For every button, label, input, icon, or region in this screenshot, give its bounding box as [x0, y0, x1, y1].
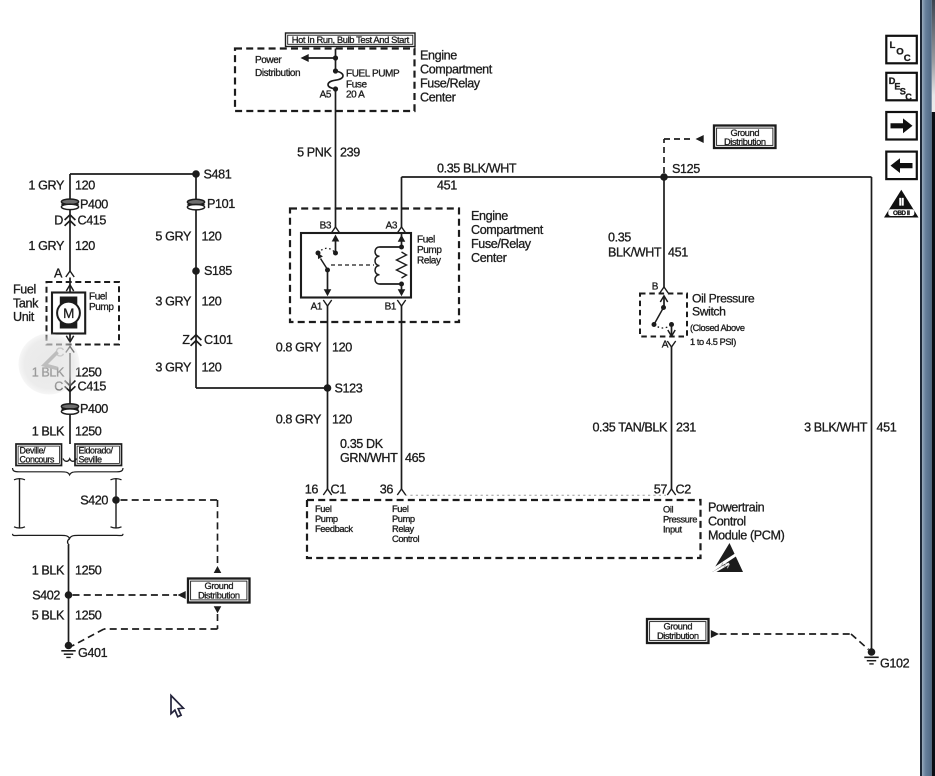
- svg-text:C1: C1: [331, 483, 347, 497]
- svg-text:Pump: Pump: [315, 514, 338, 524]
- svg-text:C415: C415: [78, 214, 107, 228]
- svg-text:Distribution: Distribution: [724, 137, 766, 147]
- svg-text:G401: G401: [78, 646, 108, 660]
- svg-text:1 GRY: 1 GRY: [28, 239, 65, 253]
- svg-text:465: 465: [405, 451, 425, 465]
- svg-text:FUEL PUMP: FUEL PUMP: [346, 69, 400, 80]
- svg-text:Unit: Unit: [13, 310, 35, 324]
- svg-text:Seville: Seville: [79, 455, 103, 465]
- svg-text:Input: Input: [663, 524, 682, 534]
- svg-text:Oil: Oil: [663, 504, 673, 514]
- svg-text:Pressure: Pressure: [663, 514, 697, 524]
- svg-text:C415: C415: [78, 380, 107, 394]
- svg-text:OBD II: OBD II: [893, 210, 910, 217]
- svg-text:120: 120: [75, 179, 95, 193]
- svg-text:Center: Center: [471, 251, 507, 265]
- svg-text:G102: G102: [880, 657, 910, 671]
- svg-text:231: 231: [676, 421, 696, 435]
- svg-text:Concours: Concours: [20, 455, 55, 465]
- svg-text:57: 57: [654, 483, 668, 497]
- svg-text:1250: 1250: [75, 425, 102, 439]
- svg-text:A3: A3: [386, 221, 398, 232]
- svg-text:3 BLK/WHT: 3 BLK/WHT: [804, 421, 868, 435]
- svg-text:1250: 1250: [75, 564, 102, 578]
- svg-text:0.35 DK: 0.35 DK: [340, 437, 384, 451]
- svg-text:451: 451: [437, 179, 457, 193]
- svg-text:20 A: 20 A: [346, 90, 365, 101]
- svg-text:0.35 BLK/WHT: 0.35 BLK/WHT: [437, 162, 517, 176]
- svg-text:5 GRY: 5 GRY: [155, 230, 192, 244]
- svg-text:0.35: 0.35: [608, 231, 631, 245]
- svg-text:Pump: Pump: [392, 514, 415, 524]
- svg-text:Fuse/Relay: Fuse/Relay: [420, 77, 481, 91]
- svg-text:5 BLK: 5 BLK: [32, 609, 65, 623]
- svg-text:Powertrain: Powertrain: [708, 501, 765, 515]
- svg-text:0.8 GRY: 0.8 GRY: [276, 341, 322, 355]
- svg-text:C: C: [905, 92, 912, 102]
- svg-text:Control: Control: [708, 515, 746, 529]
- svg-text:0.35 TAN/BLK: 0.35 TAN/BLK: [592, 421, 668, 435]
- svg-text:36: 36: [380, 483, 394, 497]
- svg-text:Fuse/Relay: Fuse/Relay: [471, 237, 532, 251]
- svg-text:Power: Power: [255, 55, 282, 66]
- svg-text:B: B: [652, 282, 659, 293]
- svg-text:1 GRY: 1 GRY: [28, 179, 65, 193]
- svg-text:451: 451: [668, 246, 688, 260]
- svg-text:Relay: Relay: [417, 255, 441, 266]
- svg-text:C: C: [904, 53, 911, 64]
- svg-text:Switch: Switch: [692, 305, 726, 319]
- svg-text:Distribution: Distribution: [255, 68, 300, 79]
- svg-text:120: 120: [202, 230, 222, 244]
- svg-text:1 to 4.5 PSI): 1 to 4.5 PSI): [690, 337, 736, 347]
- svg-text:B1: B1: [385, 302, 397, 313]
- svg-text:C101: C101: [204, 333, 233, 347]
- svg-text:Pump: Pump: [417, 245, 442, 256]
- svg-text:Fuel: Fuel: [315, 504, 332, 514]
- svg-text:239: 239: [340, 146, 360, 160]
- svg-text:GRN/WHT: GRN/WHT: [340, 451, 398, 465]
- svg-text:3 GRY: 3 GRY: [155, 361, 192, 375]
- svg-text:II: II: [899, 196, 905, 208]
- svg-text:Ground: Ground: [663, 622, 692, 632]
- svg-text:BLK/WHT: BLK/WHT: [608, 246, 662, 260]
- svg-text:L: L: [890, 40, 896, 51]
- svg-text:P400: P400: [80, 402, 108, 416]
- svg-text:120: 120: [202, 295, 222, 309]
- svg-text:Pump: Pump: [89, 302, 114, 313]
- svg-text:Oil Pressure: Oil Pressure: [692, 292, 755, 306]
- svg-text:Fuel: Fuel: [417, 235, 435, 246]
- svg-text:1250: 1250: [75, 609, 102, 623]
- svg-text:1 BLK: 1 BLK: [32, 564, 65, 578]
- svg-text:P400: P400: [80, 198, 108, 212]
- svg-text:S481: S481: [204, 168, 232, 182]
- svg-text:S402: S402: [32, 589, 60, 603]
- svg-text:P101: P101: [207, 197, 235, 211]
- svg-text:C2: C2: [676, 483, 692, 497]
- svg-text:Control: Control: [392, 534, 420, 544]
- svg-text:Relay: Relay: [392, 524, 415, 534]
- svg-text:451: 451: [877, 421, 897, 435]
- svg-text:120: 120: [75, 239, 95, 253]
- svg-text:Feedback: Feedback: [315, 524, 353, 534]
- svg-text:120: 120: [332, 413, 352, 427]
- svg-text:S420: S420: [80, 494, 108, 508]
- svg-text:Z: Z: [182, 333, 190, 347]
- svg-text:Module (PCM): Module (PCM): [708, 529, 785, 543]
- svg-text:120: 120: [202, 361, 222, 375]
- svg-text:S125: S125: [672, 162, 700, 176]
- svg-text:Center: Center: [420, 90, 456, 104]
- svg-text:Engine: Engine: [471, 209, 508, 223]
- svg-text:Ground: Ground: [204, 581, 233, 591]
- svg-text:0.8 GRY: 0.8 GRY: [276, 413, 322, 427]
- svg-text:Fuel: Fuel: [13, 283, 36, 297]
- svg-text:S185: S185: [204, 264, 232, 278]
- svg-text:B3: B3: [320, 221, 332, 232]
- svg-text:5 PNK: 5 PNK: [297, 146, 332, 160]
- svg-text:120: 120: [332, 341, 352, 355]
- svg-text:Hot In Run, Bulb Test And Star: Hot In Run, Bulb Test And Start: [292, 34, 410, 45]
- svg-text:(Closed Above: (Closed Above: [690, 323, 745, 333]
- svg-text:16: 16: [305, 483, 319, 497]
- svg-text:A: A: [54, 267, 63, 281]
- svg-text:3 GRY: 3 GRY: [155, 295, 192, 309]
- svg-text:A1: A1: [311, 302, 323, 313]
- svg-text:Fuel: Fuel: [392, 504, 409, 514]
- svg-text:S123: S123: [335, 382, 363, 396]
- svg-text:Distribution: Distribution: [198, 591, 240, 601]
- svg-text:A5: A5: [320, 90, 332, 101]
- svg-text:Engine: Engine: [420, 49, 457, 63]
- svg-text:Tank: Tank: [13, 296, 39, 310]
- svg-text:Distribution: Distribution: [657, 631, 699, 641]
- svg-text:D: D: [54, 214, 63, 228]
- svg-text:M: M: [63, 306, 74, 321]
- svg-text:Compartment: Compartment: [471, 223, 544, 237]
- svg-text:Compartment: Compartment: [420, 63, 493, 77]
- svg-text:1 BLK: 1 BLK: [32, 425, 65, 439]
